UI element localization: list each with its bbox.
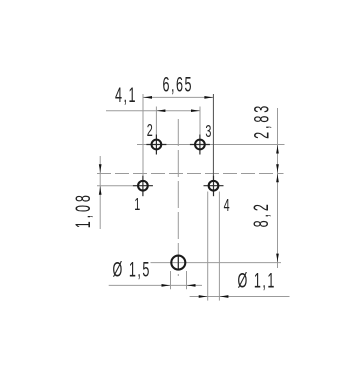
svg-text:1: 1 <box>134 196 140 215</box>
svg-text:6,65: 6,65 <box>163 72 194 96</box>
svg-text:4: 4 <box>224 196 230 215</box>
svg-text:3: 3 <box>205 122 211 141</box>
svg-text:1,08: 1,08 <box>71 192 95 228</box>
svg-text:2: 2 <box>147 122 153 141</box>
svg-text:Ø 1,5: Ø 1,5 <box>113 257 151 281</box>
svg-text:2,83: 2,83 <box>249 103 273 139</box>
svg-text:4,1: 4,1 <box>115 83 137 107</box>
svg-text:8,2: 8,2 <box>249 201 273 227</box>
svg-text:Ø 1,1: Ø 1,1 <box>238 268 276 292</box>
